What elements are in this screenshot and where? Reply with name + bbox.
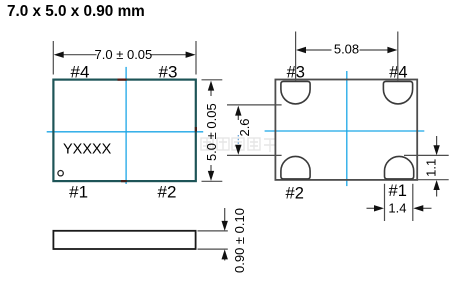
svg-text:7.0 x 5.0 x 0.90 mm: 7.0 x 5.0 x 0.90 mm (7, 3, 145, 20)
svg-text:#2: #2 (286, 185, 304, 203)
svg-text:#3: #3 (159, 62, 178, 81)
svg-text:1.4: 1.4 (388, 201, 406, 216)
svg-text:#2: #2 (158, 182, 177, 201)
svg-text:7.0 ± 0.05: 7.0 ± 0.05 (95, 47, 153, 62)
svg-text:1.1: 1.1 (423, 159, 438, 177)
svg-text:#4: #4 (71, 62, 90, 81)
svg-text:#1: #1 (389, 182, 407, 200)
svg-text:5.0 ± 0.05: 5.0 ± 0.05 (204, 103, 219, 161)
svg-text:2.6: 2.6 (237, 118, 252, 136)
svg-text:0.90 ± 0.10: 0.90 ± 0.10 (232, 208, 247, 273)
svg-text:#1: #1 (69, 182, 88, 201)
svg-text:YXXXX: YXXXX (63, 142, 112, 158)
svg-text:5.08: 5.08 (334, 41, 359, 56)
